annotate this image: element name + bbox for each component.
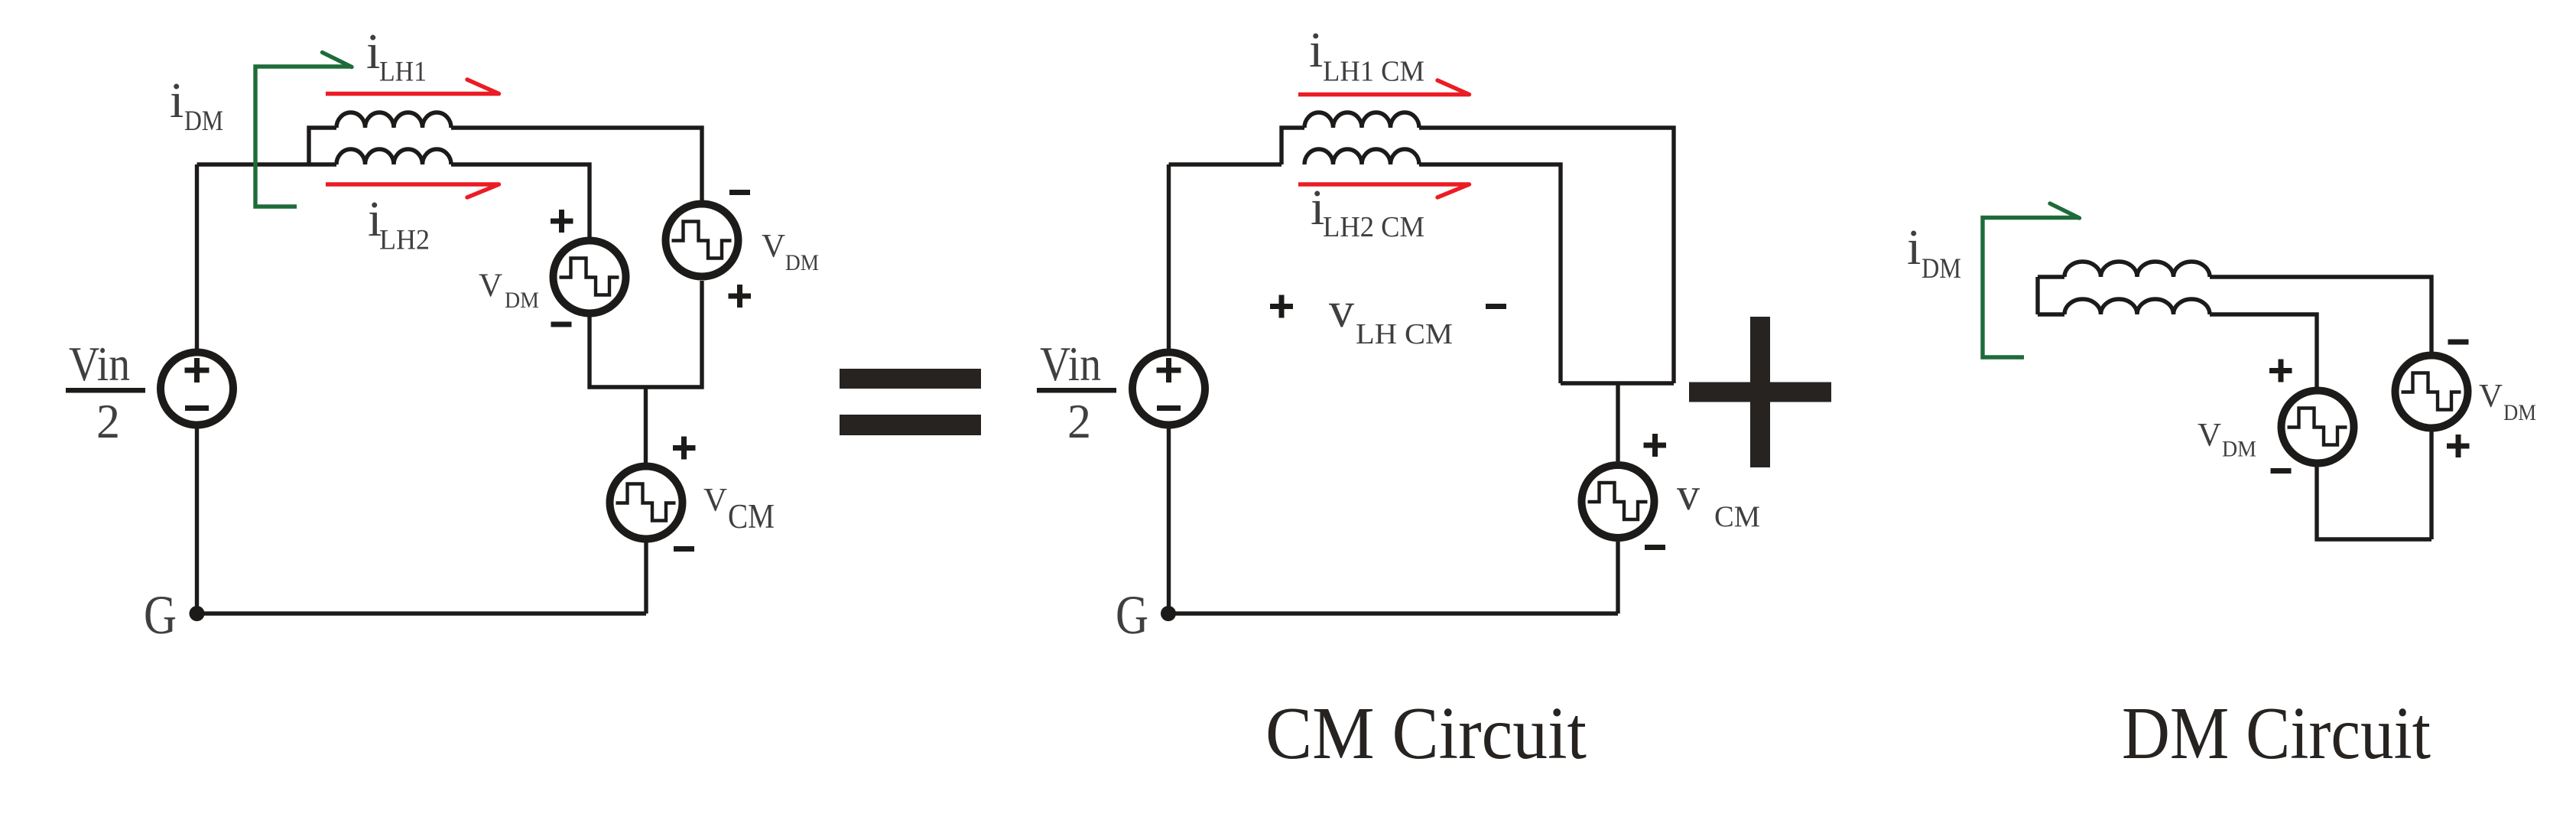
svg-text:v: v	[1329, 282, 1354, 338]
svg-text:G: G	[1116, 584, 1148, 646]
svg-text:LH2 CM: LH2 CM	[1323, 211, 1424, 243]
svg-text:i: i	[1907, 220, 1921, 275]
svg-text:i: i	[170, 73, 184, 129]
svg-text:CM Circuit: CM Circuit	[1265, 692, 1587, 775]
svg-text:DM: DM	[1921, 253, 1961, 285]
svg-text:LH2: LH2	[379, 225, 430, 256]
svg-text:G: G	[144, 584, 177, 646]
svg-text:V: V	[762, 229, 785, 265]
svg-text:CM: CM	[1714, 500, 1760, 533]
svg-text:DM: DM	[2222, 437, 2256, 462]
svg-text:2: 2	[1067, 394, 1091, 448]
svg-text:Vin: Vin	[1040, 337, 1101, 391]
svg-text:DM Circuit: DM Circuit	[2122, 692, 2431, 775]
svg-text:V: V	[703, 483, 727, 519]
svg-text:V: V	[2198, 418, 2221, 454]
svg-text:i: i	[366, 24, 380, 80]
svg-text:DM: DM	[184, 106, 223, 137]
svg-text:DM: DM	[785, 250, 819, 275]
svg-text:V: V	[479, 268, 502, 304]
svg-text:Vin: Vin	[69, 337, 130, 391]
svg-text:DM: DM	[505, 288, 539, 313]
svg-text:V: V	[2479, 379, 2503, 415]
svg-text:v: v	[1677, 469, 1700, 519]
svg-text:LH1 CM: LH1 CM	[1323, 56, 1424, 88]
svg-text:2: 2	[96, 394, 120, 448]
svg-text:CM: CM	[728, 497, 775, 535]
svg-text:LH CM: LH CM	[1356, 318, 1453, 350]
svg-text:DM: DM	[2503, 400, 2536, 425]
svg-text:LH1: LH1	[379, 57, 427, 88]
svg-text:i: i	[1309, 22, 1323, 78]
